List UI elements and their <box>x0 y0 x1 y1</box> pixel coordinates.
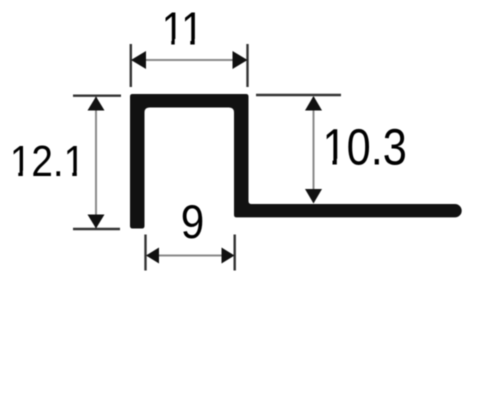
dim 11: label <box>162 4 204 55</box>
dim 12.1: top extension line <box>73 94 121 96</box>
dim 12.1: up arrowhead <box>88 97 105 111</box>
svg-text:12.1: 12.1 <box>10 136 85 186</box>
dim 12.1: dimension line <box>95 97 97 228</box>
dim 10.3: down arrowhead <box>305 189 322 204</box>
dim 9: left arrowhead <box>146 248 159 264</box>
dim 10.3: up arrowhead <box>305 96 322 111</box>
dim 9: dimension line <box>147 255 233 257</box>
svg-text:11: 11 <box>162 4 204 55</box>
dim 11: dimension line <box>144 59 234 61</box>
svg-text:9: 9 <box>181 197 205 249</box>
dim 12.1: label <box>10 136 85 186</box>
dim 9: left extension tick <box>144 235 146 271</box>
dim 9: right arrowhead <box>222 248 235 264</box>
dim 12.1: bottom extension line <box>73 228 120 230</box>
profile cross-section body <box>130 94 462 229</box>
dim 10.3: label <box>323 119 407 176</box>
dim 9: right extension tick <box>233 235 235 271</box>
dim 12.1: down arrowhead <box>88 215 105 229</box>
dim 11: right arrowhead <box>233 51 248 69</box>
dim 11: right extension line <box>246 44 248 87</box>
dim 11: left arrowhead <box>131 51 146 69</box>
dim 10.3: dimension line <box>313 97 315 202</box>
svg-text:10.3: 10.3 <box>323 119 407 176</box>
dim 10.3: top extension line <box>256 94 341 96</box>
dim 11: left extension line <box>130 44 132 87</box>
